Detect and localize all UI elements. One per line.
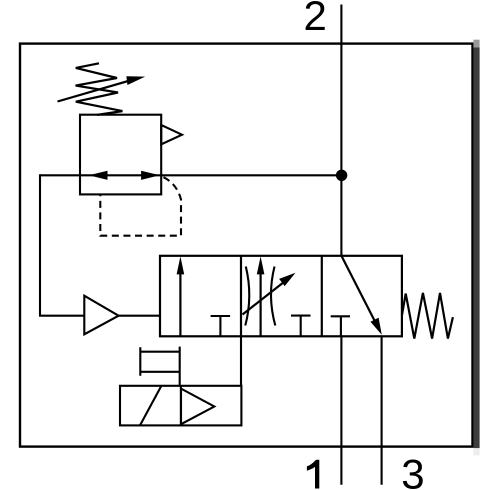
chamber1 blocked port T [211,316,231,336]
chamber2 flow arrow [260,272,262,336]
valve body [160,256,402,336]
chamber2 blocked port T [291,316,311,337]
chamber3 flow diagonal [341,256,374,321]
regulator pilot dashed line [100,177,181,236]
enclosure border [20,44,473,447]
wire port 2 vertical [340,5,342,256]
chamber1 flow arrow [179,272,181,336]
solenoid box [120,386,241,426]
solenoid diagonal [140,386,161,426]
valve return spring [402,293,453,339]
wire amplifier input [39,315,84,317]
regulator flow arrowhead left [89,171,108,180]
pressure regulator body [80,115,161,195]
port label 3 [401,451,424,490]
wire regulator output horizontal [40,174,341,176]
chamber2 throttle arrow [243,283,284,315]
regulator flow arrowhead right [141,171,160,180]
solenoid divider [180,386,182,426]
wire amplifier output [117,315,160,317]
chamber2 throttle curve right [271,267,275,326]
valve divider right [321,256,323,336]
wire port 1 [340,336,342,484]
chamber3 blocked port T [331,316,350,336]
wire valve to pilot actuator [240,336,242,386]
valve divider left [240,256,242,336]
chamber2 throttle curve left [245,267,249,326]
svg-text:2: 2 [304,0,327,39]
port label 2 [304,0,327,39]
pilot triangle [181,389,214,425]
amplifier triangle [84,296,118,335]
wire port 3 [381,336,383,484]
regulator relief triangle [161,125,182,144]
manual override symbol [140,347,179,386]
port label 1 [307,460,319,489]
node junction dot [336,170,347,181]
wire pilot branch left vertical [39,174,41,315]
svg-text:3: 3 [401,451,424,490]
scrollbar track right edge [473,40,479,456]
regulator adjustment arrow [58,80,133,102]
regulator spring zigzag [76,63,123,115]
